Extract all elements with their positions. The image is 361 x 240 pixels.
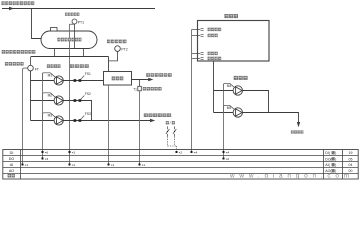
PT1 AI junction	[69, 164, 71, 166]
wire T1 AI signal to table	[139, 91, 141, 165]
wire T1 tap	[139, 80, 141, 87]
svg-text:M4: M4	[227, 84, 232, 88]
svg-text:M2: M2	[48, 94, 53, 98]
wire tank bottom stub 3	[83, 49, 85, 57]
PT2 AI junction	[108, 164, 110, 166]
svg-text:×1: ×1	[142, 163, 146, 167]
motor leader M2	[43, 93, 56, 101]
svg-text:T1: T1	[133, 87, 137, 91]
wire FT tap	[30, 57, 32, 66]
wire M5 discharge to outfall	[243, 113, 299, 123]
motor leader M4	[224, 83, 234, 90]
svg-text:AI: AI	[10, 163, 13, 167]
svg-text:DI: DI	[10, 151, 14, 155]
temperature sensor T1 body	[138, 86, 142, 91]
label: water flow switches (CJK)	[70, 64, 74, 68]
flow arrow on supply main	[9, 7, 14, 10]
svg-text:FS2: FS2	[85, 92, 91, 96]
boiler name label (CJK)	[112, 76, 116, 80]
wire suction branch row 2	[31, 100, 55, 102]
svg-text:M3: M3	[48, 114, 53, 118]
net label: user domestic hot water (CJK)	[146, 73, 150, 77]
motor leader M3	[43, 113, 56, 121]
wire FT signal elbow down to AI bus	[23, 68, 28, 164]
wire PT2 tap	[109, 51, 118, 61]
pump run/fault DI junction	[42, 151, 44, 153]
svg-text:/: /	[170, 121, 171, 125]
svg-text:PT2: PT2	[121, 47, 127, 51]
svg-text:): )	[335, 151, 336, 155]
svg-text:04: 04	[349, 163, 353, 167]
flow switch FS2 contacts	[74, 99, 77, 102]
svg-text:×2: ×2	[179, 150, 183, 154]
net label: user domestic cold water (CJK)	[144, 113, 148, 117]
svg-text:19: 19	[349, 151, 353, 155]
svg-text:M5: M5	[227, 106, 232, 110]
wire pump suction rail	[30, 71, 32, 121]
sewage pump DO junction	[223, 158, 225, 160]
svg-text:FT: FT	[35, 68, 39, 72]
motor leader M1	[43, 73, 56, 81]
sewage pump M5	[233, 108, 242, 117]
tank: non-negative-pressure stabilized-flow water tank	[41, 31, 97, 49]
level switch: low level switch	[192, 53, 201, 55]
wire suction branch row 3	[31, 120, 55, 122]
flow transmitter FT circle	[28, 65, 34, 71]
label power-supply row (CJK)	[8, 174, 11, 178]
arrow cold water to users	[150, 119, 155, 122]
svg-text:www.diangon.com: www.diangon.com	[229, 172, 354, 179]
svg-text:×3: ×3	[45, 157, 49, 161]
net label: small-flow pressure-holding supply pipe network (CJK)	[2, 50, 5, 54]
wire branch to pump M4	[214, 90, 234, 92]
leader FS2	[81, 96, 85, 100]
pressure transmitter PT2 circle	[115, 46, 121, 52]
svg-text:DO(: DO(	[325, 157, 332, 161]
svg-text:AO: AO	[9, 169, 14, 173]
label sewage pool (CJK)	[224, 14, 228, 18]
boiler: direct-fired heater box	[104, 72, 132, 86]
svg-text:×1: ×1	[111, 163, 115, 167]
svg-text:×6: ×6	[45, 150, 49, 154]
flow switch FS3 contacts	[74, 119, 77, 122]
I/O table grid	[3, 150, 358, 180]
svg-text:×2: ×2	[226, 157, 230, 161]
label sewage pumps (CJK)	[234, 76, 238, 80]
wire sewage pumps DI/DO bundle	[223, 91, 225, 159]
svg-text:×1: ×1	[72, 163, 76, 167]
wire PT1 tap elbow	[70, 23, 75, 25]
svg-text:DO: DO	[9, 157, 15, 161]
pump M1	[54, 76, 63, 85]
wire discharge row 3 / cold water line to users	[64, 120, 151, 122]
sewage pump M4	[233, 86, 242, 95]
sewage pool tank	[198, 21, 270, 62]
pump M3	[54, 116, 63, 125]
wire pump control bundle to DI/DO bus	[42, 73, 44, 159]
summary sub-table columns	[323, 150, 325, 180]
flow switch FS1 contacts	[74, 79, 77, 82]
svg-text:): )	[335, 163, 336, 167]
svg-text:×1: ×1	[25, 163, 29, 167]
svg-text:×4: ×4	[194, 150, 198, 154]
wire PT1 sensing line through tank	[74, 24, 76, 49]
net label: to sewage well (CJK)	[291, 130, 294, 133]
motor leader M5	[224, 105, 234, 112]
svg-text:FS3: FS3	[85, 112, 91, 116]
wire supply main horizontal	[2, 8, 155, 10]
tank manhole nozzle	[51, 28, 58, 32]
flow sensor label (CJK)	[5, 62, 8, 66]
leader FS1	[81, 76, 85, 80]
pump M2	[54, 96, 63, 105]
svg-text:M1: M1	[48, 74, 53, 78]
leader FS3	[81, 116, 85, 120]
wire PT1 AI signal line down to table	[69, 24, 71, 164]
svg-text:FS1: FS1	[85, 72, 91, 76]
label: domestic water pumps (CJK)	[47, 64, 50, 68]
wire manifold drop to boiler top	[108, 57, 110, 72]
wire supply drop to tank	[32, 9, 43, 39]
svg-text:PT1: PT1	[78, 20, 84, 24]
wire boiler/PT2 AI signal down to table	[108, 85, 110, 165]
FT AI junction	[22, 164, 24, 166]
tank name label (CJK)	[57, 38, 60, 42]
level switch: ultra-low level switch	[192, 58, 201, 60]
wire hot water outlet	[132, 79, 149, 81]
selector switch contacts	[166, 126, 169, 136]
wire branch to pump M5	[214, 112, 234, 114]
wire M4 discharge	[243, 91, 269, 113]
wire selector DI lines	[168, 136, 177, 152]
pump start DO junction	[42, 158, 44, 160]
svg-text:DI(: DI(	[325, 151, 331, 155]
wire tank bottom stub 1	[54, 49, 56, 57]
svg-text:05: 05	[349, 157, 353, 161]
temperature sensor label (CJK)	[143, 87, 146, 91]
level switch: high level switch	[192, 35, 201, 37]
arrow to sewage well	[297, 122, 300, 127]
svg-text:×4: ×4	[226, 150, 230, 154]
wire level switches DI bundle to table	[191, 30, 193, 153]
pressure sensor label above PT2 (CJK)	[107, 40, 110, 44]
selector DI junction	[176, 151, 178, 153]
level switch DI junction	[191, 151, 193, 153]
svg-text:×3: ×3	[72, 150, 76, 154]
label hand/auto selector (CJK + slash)	[166, 121, 169, 124]
arrow hot water to users	[148, 78, 153, 81]
svg-text:): )	[335, 157, 336, 161]
level switch: ultra-high level switch	[192, 29, 201, 31]
wire suction manifold	[31, 56, 109, 58]
wire discharge row 2	[64, 101, 92, 121]
pressure sensor label above PT1 (CJK)	[65, 13, 68, 16]
T1 AI junction	[139, 164, 141, 166]
flow switch DI junction	[69, 151, 71, 153]
wire discharge row 1 into boiler	[64, 80, 104, 82]
pressure transmitter PT1 circle	[72, 19, 77, 24]
wire suction branch row 1	[31, 80, 55, 82]
wire pool outlet down	[213, 61, 215, 113]
sewage pump DI junction	[223, 151, 225, 153]
net label: municipal tap water supply pipe network	[2, 1, 5, 5]
